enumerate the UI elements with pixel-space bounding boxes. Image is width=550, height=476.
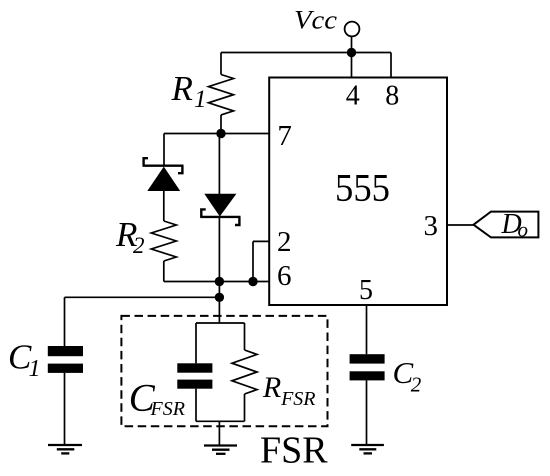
svg-text:R: R: [262, 371, 281, 404]
svg-text:Vcc: Vcc: [294, 5, 338, 34]
svg-text:8: 8: [385, 81, 399, 112]
svg-text:7: 7: [277, 120, 292, 152]
svg-text:FSR: FSR: [280, 388, 315, 410]
svg-text:o: o: [518, 217, 529, 241]
svg-text:1: 1: [194, 86, 207, 113]
svg-text:1: 1: [29, 356, 41, 382]
svg-text:2: 2: [277, 226, 292, 258]
svg-text:R: R: [171, 69, 193, 108]
svg-text:FSR: FSR: [260, 430, 328, 472]
svg-text:2: 2: [133, 233, 145, 258]
svg-text:2: 2: [411, 373, 422, 397]
svg-text:6: 6: [277, 260, 292, 292]
svg-text:4: 4: [346, 81, 360, 112]
svg-text:FSR: FSR: [150, 398, 185, 420]
svg-text:555: 555: [335, 167, 390, 210]
svg-text:5: 5: [359, 275, 373, 306]
svg-text:3: 3: [424, 210, 439, 242]
